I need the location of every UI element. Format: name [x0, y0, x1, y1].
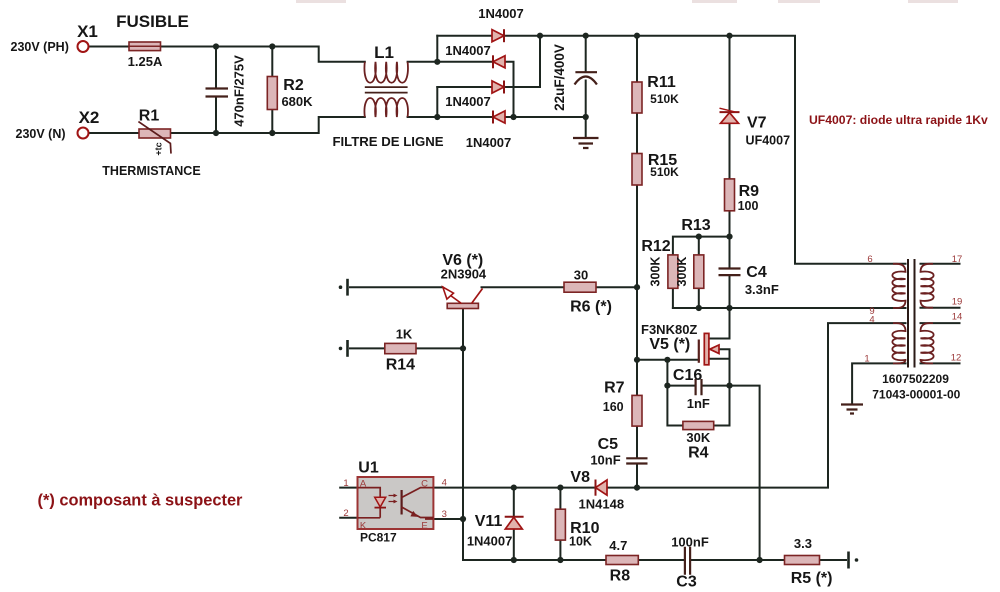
svg-text:C: C	[421, 479, 428, 490]
svg-text:2: 2	[343, 508, 348, 519]
svg-text:1: 1	[864, 354, 869, 365]
svg-text:470nF/275V: 470nF/275V	[232, 55, 247, 127]
svg-text:V11: V11	[475, 513, 503, 530]
svg-text:19: 19	[952, 297, 963, 308]
svg-text:R11: R11	[647, 74, 676, 91]
svg-text:FILTRE DE LIGNE: FILTRE DE LIGNE	[332, 134, 443, 149]
svg-text:1N4007: 1N4007	[467, 534, 513, 549]
svg-text:R2: R2	[283, 77, 304, 94]
svg-text:R6 (*): R6 (*)	[570, 299, 612, 316]
svg-text:510K: 510K	[650, 92, 679, 106]
svg-text:V8: V8	[570, 469, 590, 486]
svg-text:C3: C3	[676, 574, 697, 591]
svg-text:4: 4	[869, 315, 874, 326]
svg-text:100nF: 100nF	[671, 535, 709, 550]
svg-text:R8: R8	[610, 568, 631, 585]
svg-text:FUSIBLE: FUSIBLE	[116, 12, 189, 31]
svg-text:E: E	[421, 521, 427, 532]
svg-text:R13: R13	[681, 217, 710, 234]
svg-text:230V (PH): 230V (PH)	[11, 40, 69, 54]
svg-text:300K: 300K	[649, 257, 663, 287]
svg-text:510K: 510K	[650, 165, 679, 179]
svg-text:22uF/400V: 22uF/400V	[552, 44, 567, 111]
svg-text:C16: C16	[673, 367, 702, 384]
svg-text:PC817: PC817	[360, 531, 397, 545]
svg-text:30K: 30K	[686, 430, 710, 445]
svg-text:R5 (*): R5 (*)	[791, 570, 833, 587]
svg-text:R9: R9	[739, 183, 760, 200]
svg-text:1607502209: 1607502209	[882, 372, 949, 386]
svg-text:2N3904: 2N3904	[441, 267, 487, 282]
svg-text:R1: R1	[139, 108, 160, 125]
svg-text:6: 6	[867, 254, 872, 265]
svg-text:R4: R4	[688, 445, 709, 462]
svg-text:1K: 1K	[396, 327, 413, 342]
svg-text:+tc: +tc	[154, 142, 164, 155]
svg-text:3.3nF: 3.3nF	[745, 282, 779, 297]
svg-text:3: 3	[442, 509, 447, 520]
svg-text:THERMISTANCE: THERMISTANCE	[102, 164, 200, 178]
svg-text:30: 30	[574, 268, 588, 283]
svg-text:12: 12	[951, 353, 962, 364]
svg-text:300K: 300K	[675, 257, 689, 287]
svg-text:14: 14	[952, 312, 963, 323]
svg-text:1nF: 1nF	[687, 396, 710, 411]
svg-text:100: 100	[738, 199, 759, 213]
svg-text:1N4148: 1N4148	[579, 497, 625, 512]
svg-text:4.7: 4.7	[609, 538, 627, 553]
svg-text:U1: U1	[358, 460, 379, 477]
svg-text:3.3: 3.3	[794, 536, 812, 551]
svg-text:C4: C4	[746, 264, 767, 281]
svg-text:(*) composant à suspecter: (*) composant à suspecter	[38, 492, 244, 510]
svg-text:V7: V7	[747, 115, 767, 132]
svg-text:1N4007: 1N4007	[445, 94, 491, 109]
svg-text:71043-00001-00: 71043-00001-00	[872, 388, 960, 402]
svg-text:V5 (*): V5 (*)	[649, 336, 690, 353]
svg-text:R7: R7	[604, 380, 625, 397]
svg-text:680K: 680K	[281, 94, 313, 109]
svg-text:160: 160	[603, 400, 624, 414]
svg-text:17: 17	[952, 254, 963, 265]
svg-text:1N4007: 1N4007	[478, 6, 524, 21]
svg-text:1N4007: 1N4007	[466, 135, 512, 150]
svg-text:1N4007: 1N4007	[445, 43, 491, 58]
svg-text:L1: L1	[374, 43, 394, 62]
svg-text:10nF: 10nF	[590, 453, 620, 468]
svg-text:UF4007: UF4007	[746, 134, 791, 148]
svg-text:1.25A: 1.25A	[128, 54, 163, 69]
svg-text:A: A	[360, 479, 367, 490]
svg-text:230V (N): 230V (N)	[16, 127, 66, 141]
svg-text:10K: 10K	[569, 535, 592, 549]
svg-text:X1: X1	[77, 22, 98, 41]
svg-text:UF4007: diode ultra rapide 1Kv: UF4007: diode ultra rapide 1Kv	[809, 113, 988, 127]
svg-text:1: 1	[343, 478, 348, 489]
svg-text:K: K	[360, 521, 367, 532]
svg-text:C5: C5	[598, 436, 619, 453]
svg-text:F3NK80Z: F3NK80Z	[641, 322, 697, 337]
svg-text:R12: R12	[641, 238, 670, 255]
svg-text:4: 4	[442, 478, 447, 489]
svg-text:R14: R14	[386, 357, 415, 374]
svg-text:X2: X2	[79, 108, 100, 127]
